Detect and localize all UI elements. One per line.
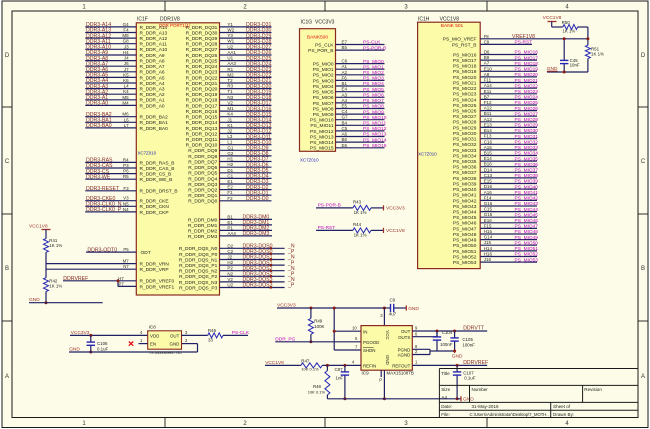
svg-text:H16: H16 <box>484 252 493 257</box>
pin A14 / net PS_MIO22 wire <box>453 83 538 92</box>
pin C4 / net PS_MIO9 wire <box>313 109 385 118</box>
svg-text:VCC: VCC <box>385 330 390 339</box>
svg-text:R_DDR_CKE: R_DDR_CKE <box>140 199 169 205</box>
pin E7 / net PS-CLK wire <box>315 40 384 49</box>
svg-text:D14: D14 <box>484 167 493 172</box>
svg-text:PS_MIO23: PS_MIO23 <box>515 89 539 95</box>
svg-text:R49: R49 <box>314 318 323 323</box>
svg-text:R_DDR_DQ26: R_DDR_DQ26 <box>186 53 218 59</box>
pin B9 / net PS_MIO17 wire <box>453 55 538 64</box>
pin A6 / net PS_MIO13 wire <box>310 132 387 141</box>
svg-text:R_DDR_A0: R_DDR_A0 <box>140 103 165 109</box>
junction R42 gnd rail <box>45 301 48 304</box>
pin E15 / net PS_MIO39 wire <box>453 179 538 188</box>
svg-text:R_DDR_A8: R_DDR_A8 <box>140 59 165 65</box>
svg-text:E7: E7 <box>342 40 348 45</box>
svg-text:VCC1V8: VCC1V8 <box>440 16 460 22</box>
pin F13 / net PS_MIO31 wire <box>453 134 538 143</box>
svg-text:N3: N3 <box>227 95 233 100</box>
junction OUTS/OUT <box>436 330 439 333</box>
pin J2 / net DDR3-DQS1_N wire <box>179 255 295 264</box>
svg-text:R_DDR_DQ0: R_DDR_DQ0 <box>188 199 217 205</box>
svg-text:PS_MIO8: PS_MIO8 <box>313 106 334 112</box>
wire R44 to VCC1V8 <box>371 229 384 231</box>
svg-text:R_DDR_DQ15: R_DDR_DQ15 <box>186 115 218 121</box>
svg-text:R_DDR_VRP: R_DDR_VRP <box>140 267 169 273</box>
resistor R41 1K 1% <box>44 238 63 252</box>
svg-text:PS_MIO12: PS_MIO12 <box>363 126 387 132</box>
svg-text:C87: C87 <box>335 367 344 372</box>
svg-text:PS_MIO26: PS_MIO26 <box>453 109 477 115</box>
svg-text:M5: M5 <box>122 95 129 100</box>
power port GND bottom right <box>457 396 474 402</box>
svg-text:PS_MIO18: PS_MIO18 <box>515 61 539 67</box>
pin 1 EN no-connect X <box>129 338 148 346</box>
svg-text:DDR3-RESET: DDR3-RESET <box>86 186 120 192</box>
pin H7 R_DDR_VREF0 / net DDRVREF wire <box>63 276 174 285</box>
svg-text:C4: C4 <box>342 109 348 114</box>
pin L4 / net DDR3-A3 wire <box>85 84 165 93</box>
pin 3 OUT wire <box>182 330 208 336</box>
svg-text:PGOOD: PGOOD <box>363 340 379 345</box>
svg-text:_P: _P <box>287 283 295 289</box>
svg-text:R_DDR_BA2: R_DDR_BA2 <box>140 115 169 121</box>
svg-text:R46: R46 <box>208 328 217 333</box>
pin D16 / net PS_MIO40 wire <box>453 184 538 193</box>
svg-text:10K 0.1%: 10K 0.1% <box>301 367 319 372</box>
power port VCC1V8 refin <box>265 360 301 366</box>
svg-text:F1: F1 <box>227 190 233 195</box>
svg-text:GND: GND <box>408 306 419 312</box>
svg-text:B: B <box>641 266 645 272</box>
svg-text:Number: Number <box>472 387 489 392</box>
pin L1 / net DDR3-D10 wire <box>186 140 272 149</box>
capacitor C106 0.1uF <box>87 335 109 352</box>
svg-text:D: D <box>641 53 646 59</box>
svg-text:B15: B15 <box>484 151 493 156</box>
svg-text:PS_POR_B: PS_POR_B <box>308 48 333 54</box>
pin D2 / net DDR3-DQS0_N wire <box>179 243 295 252</box>
net label PS-RST wire <box>316 225 353 231</box>
svg-text:R_DDR_DQ11: R_DDR_DQ11 <box>186 137 218 143</box>
net label DDRVTT <box>463 326 485 332</box>
svg-text:PS_MIO40: PS_MIO40 <box>515 184 539 190</box>
svg-text:A14: A14 <box>484 83 493 88</box>
pin K4 / net DDR3-A2 wire <box>85 89 165 98</box>
svg-text:E1: E1 <box>227 179 233 184</box>
svg-text:F4: F4 <box>123 28 129 33</box>
svg-text:P1: P1 <box>227 225 233 230</box>
pin R4 / net DDR3-RAS wire <box>85 157 174 166</box>
capacitor C104 100nF <box>433 330 453 351</box>
svg-text:P6: P6 <box>123 169 129 174</box>
pin F3 / net DDR3-RESET wire <box>85 186 177 195</box>
junction C106 gnd <box>89 351 92 354</box>
svg-text:R_DDR_DQ1: R_DDR_DQ1 <box>188 193 217 199</box>
pin 9 OUT <box>415 326 418 331</box>
junction DDRVREF node <box>117 279 120 282</box>
svg-text:31-May-2016: 31-May-2016 <box>472 404 500 409</box>
svg-text:F12: F12 <box>484 100 492 105</box>
svg-text:R_DDR_DM0: R_DDR_DM0 <box>188 217 218 223</box>
svg-text:PS_MIO41: PS_MIO41 <box>453 193 477 199</box>
svg-text:PS_MIO30: PS_MIO30 <box>515 128 539 134</box>
svg-text:T1: T1 <box>227 89 233 94</box>
svg-text:N2: N2 <box>227 271 233 276</box>
svg-text:PS_MIO28: PS_MIO28 <box>515 117 539 123</box>
svg-text:L1: L1 <box>227 140 233 145</box>
svg-text:F15: F15 <box>484 223 492 228</box>
power port VCC3V3 reg <box>277 303 386 309</box>
power port VCC3V3 osc <box>70 330 148 336</box>
svg-text:R_DDR_DQS_N1: R_DDR_DQS_N1 <box>179 257 218 263</box>
svg-text:B5: B5 <box>342 45 348 50</box>
svg-text:R_DDR_DQ4: R_DDR_DQ4 <box>188 176 217 182</box>
resistor R51 1K 1% <box>585 39 604 72</box>
svg-text:PS_MIO51: PS_MIO51 <box>515 246 539 252</box>
svg-text:R_DDR_DQ21: R_DDR_DQ21 <box>186 81 218 87</box>
wire C9 to GND <box>398 307 406 309</box>
svg-text:R_DDR_DQ14: R_DDR_DQ14 <box>186 120 218 126</box>
svg-text:PS_MIO32: PS_MIO32 <box>453 142 477 148</box>
resistor R42 1K 1% <box>44 278 63 303</box>
svg-text:PS_MIO0: PS_MIO0 <box>313 62 334 68</box>
pin C16 / net PS_MIO32 wire <box>453 139 538 148</box>
svg-text:A12: A12 <box>484 106 493 111</box>
svg-text:DDR3-BA0: DDR3-BA0 <box>86 123 112 129</box>
svg-text:PS_MIO14: PS_MIO14 <box>363 137 387 143</box>
svg-text:PS_MIO45: PS_MIO45 <box>515 212 539 218</box>
power port VCC1V8 mid <box>384 228 405 234</box>
svg-text:R_DDR_DQ6: R_DDR_DQ6 <box>188 165 217 171</box>
svg-text:PS_MIO30: PS_MIO30 <box>453 131 477 137</box>
pin A2 / net PS_MIO2 wire <box>313 70 385 79</box>
svg-text:1K 1%: 1K 1% <box>591 52 604 57</box>
svg-text:N4: N4 <box>123 207 129 212</box>
pin H4 / net DDR3-A9 wire <box>85 50 165 59</box>
svg-text:Y3: Y3 <box>227 33 233 38</box>
pin B1 / net PS_MIO4 wire <box>313 81 385 90</box>
capacitor C45 10nF <box>560 39 580 72</box>
svg-text:PS-RST: PS-RST <box>515 40 533 46</box>
net label PS-CLK <box>232 330 250 336</box>
svg-text:A15: A15 <box>484 145 493 150</box>
svg-text:MAX15108TB: MAX15108TB <box>387 371 414 376</box>
svg-text:IN: IN <box>363 329 367 334</box>
svg-text:PS_MIO37: PS_MIO37 <box>453 170 477 176</box>
capacitor C105 100nF <box>450 331 475 351</box>
svg-text:L4: L4 <box>124 84 130 89</box>
svg-text:R_DDR_DQ27: R_DDR_DQ27 <box>186 47 218 53</box>
svg-text:R_DDR_DQ13: R_DDR_DQ13 <box>186 126 218 132</box>
wire R46 to PS-CLK <box>223 334 248 336</box>
svg-text:PS_MIO22: PS_MIO22 <box>515 83 539 89</box>
pin A15 / net PS_MIO33 wire <box>453 145 538 154</box>
svg-text:E1: E1 <box>227 220 233 225</box>
pin T2 / net DDR3-D21 wire <box>186 78 272 87</box>
svg-text:R_DDR_DQ29: R_DDR_DQ29 <box>186 36 218 42</box>
svg-text:E16: E16 <box>484 218 493 223</box>
pin B16 / net PS_MIO36 wire <box>453 162 538 171</box>
svg-text:J16: J16 <box>484 257 492 262</box>
svg-text:SHDN: SHDN <box>363 348 375 353</box>
svg-text:J7: J7 <box>124 67 129 72</box>
svg-text:R_DDR_DRST_B: R_DDR_DRST_B <box>140 189 178 195</box>
svg-text:PS_MIO9: PS_MIO9 <box>363 109 384 115</box>
wire GND pad to rail <box>383 370 385 399</box>
pin U1 / net DDR3-D25 wire <box>186 56 272 65</box>
svg-text:PS_MIO31: PS_MIO31 <box>453 137 477 143</box>
svg-text:PS_MIO51: PS_MIO51 <box>453 249 477 255</box>
wire VCC1V8 to R50 <box>552 26 563 28</box>
svg-text:B11: B11 <box>484 111 492 116</box>
svg-text:PS_MIO9: PS_MIO9 <box>313 112 334 118</box>
pin 4 REFIN <box>352 360 355 365</box>
pin F2 / net DDR3-D0 wire <box>188 196 271 205</box>
power port GND left divider <box>29 297 103 303</box>
svg-text:PS_MIO10: PS_MIO10 <box>363 115 387 121</box>
svg-text:BANK 501: BANK 501 <box>441 23 464 29</box>
svg-text:E11: E11 <box>484 89 492 94</box>
pin 6 OUTS <box>415 331 418 336</box>
svg-text:A4: A4 <box>342 98 348 103</box>
svg-text:B1: B1 <box>227 214 233 219</box>
svg-text:H2: H2 <box>227 260 233 265</box>
svg-text:ODT: ODT <box>141 250 151 256</box>
svg-text:R_DDR_A13: R_DDR_A13 <box>140 30 168 36</box>
svg-text:B9: B9 <box>484 55 490 60</box>
svg-text:G16: G16 <box>484 201 493 206</box>
svg-text:F14: F14 <box>484 195 492 200</box>
svg-text:PS-CLK: PS-CLK <box>363 40 381 46</box>
pin J1 / net DDR3-D14 wire <box>186 117 272 126</box>
svg-text:C16: C16 <box>484 139 493 144</box>
svg-text:F13: F13 <box>484 134 492 139</box>
pin V2 / net DDR3-D17 wire <box>186 100 272 109</box>
svg-text:A2: A2 <box>342 70 348 75</box>
svg-text:N5: N5 <box>123 201 129 206</box>
svg-text:GND: GND <box>385 355 390 365</box>
pin 5 PGOOD <box>355 336 358 341</box>
pin R5 / net DDR3-WE wire <box>85 174 172 183</box>
svg-text:M4: M4 <box>122 100 129 105</box>
svg-text:R4: R4 <box>123 157 129 162</box>
pin N4 / net DDR3-CLK0_P wire <box>85 207 168 216</box>
pin F14 / net PS_MIO42 wire <box>453 195 538 204</box>
svg-text:E6: E6 <box>342 143 348 148</box>
svg-text:PS_MIO0: PS_MIO0 <box>363 59 384 65</box>
svg-text:F3: F3 <box>123 186 129 191</box>
svg-text:R_DDR_DQS_P3: R_DDR_DQS_P3 <box>179 285 217 291</box>
svg-text:L3: L3 <box>227 134 233 139</box>
svg-text:PS_MIO25: PS_MIO25 <box>453 103 477 109</box>
pin B6 / net PS_MIO14 wire <box>310 137 387 146</box>
svg-text:R_DDR_A2: R_DDR_A2 <box>140 92 165 98</box>
power port GND top right <box>547 66 558 72</box>
svg-text:PS_MIO20: PS_MIO20 <box>515 72 539 78</box>
svg-text:F6: F6 <box>342 75 348 80</box>
junction C105 tap <box>453 330 456 333</box>
svg-text:M6: M6 <box>122 112 129 117</box>
svg-text:D6: D6 <box>484 50 490 55</box>
IC U1 IC1G XC7Z010 BANK500 body <box>300 19 336 162</box>
pin A3 / net PS_MIO6 wire <box>313 92 385 101</box>
pin B15 / net PS_MIO34 wire <box>453 151 538 160</box>
pin C6 / net PS_MIO0 wire <box>313 59 385 68</box>
svg-text:PS_MIO45: PS_MIO45 <box>453 215 477 221</box>
svg-text:C15: C15 <box>484 207 493 212</box>
svg-text:PS_MIO4: PS_MIO4 <box>313 84 334 90</box>
svg-text:D1: D1 <box>227 168 233 173</box>
wire gnd rail top right <box>547 71 588 73</box>
svg-text:PS_MIO25: PS_MIO25 <box>515 100 539 106</box>
wire R43 to VCC3V3 <box>371 207 384 209</box>
net label PS-POR-B wire <box>316 203 353 209</box>
svg-text:VREF1V8: VREF1V8 <box>512 34 535 40</box>
svg-text:PS_MIO27: PS_MIO27 <box>453 114 477 120</box>
svg-text:PS_MIO27: PS_MIO27 <box>515 111 539 117</box>
svg-text:DDRVTT: DDRVTT <box>463 326 485 332</box>
svg-text:A13: A13 <box>484 117 493 122</box>
svg-text:R_DDR_A4: R_DDR_A4 <box>140 81 165 87</box>
svg-text:W2: W2 <box>227 28 234 33</box>
svg-text:R_DDR_A3: R_DDR_A3 <box>140 87 165 93</box>
pin F15 / net PS_MIO47 wire <box>453 223 538 232</box>
svg-text:100nF: 100nF <box>462 342 475 347</box>
svg-text:G1: G1 <box>227 145 234 150</box>
power port VCC3V3 mid <box>384 205 405 211</box>
svg-text:E15: E15 <box>484 179 493 184</box>
svg-text:C13: C13 <box>484 173 493 178</box>
svg-text:100nF: 100nF <box>440 342 453 347</box>
svg-text:B1: B1 <box>342 81 348 86</box>
svg-text:R_DDR_DQ31: R_DDR_DQ31 <box>186 25 218 31</box>
svg-text:1K 1%: 1K 1% <box>49 243 62 248</box>
svg-text:10: 10 <box>352 326 357 331</box>
junction VCC3V3 / C106 <box>89 334 92 337</box>
pin G16 / net PS_MIO43 wire <box>453 201 538 210</box>
svg-text:V2: V2 <box>227 277 233 282</box>
resistor R48 10K 0.1% <box>308 365 330 398</box>
pin R3 / net DDR3-D20 wire <box>186 84 272 93</box>
svg-text:7X-33333MHZ-T1C: 7X-33333MHZ-T1C <box>149 351 182 355</box>
svg-text:R_DDR_VREF1: R_DDR_VREF1 <box>140 284 175 290</box>
power port GND osc <box>69 347 198 353</box>
svg-text:DDR1V8: DDR1V8 <box>160 17 180 23</box>
svg-text:PS_MIO18: PS_MIO18 <box>453 64 477 70</box>
svg-text:PS_MIO11: PS_MIO11 <box>310 123 333 129</box>
svg-text:PS_MIO7: PS_MIO7 <box>363 98 384 104</box>
svg-text:L6: L6 <box>124 117 130 122</box>
svg-text:10nF: 10nF <box>570 63 580 68</box>
svg-text:D2: D2 <box>227 243 233 248</box>
wire R47 to REFIN <box>322 364 361 366</box>
wire VCC3V3 branch to IN and SHDN <box>334 308 361 350</box>
svg-text:PS_MIO50: PS_MIO50 <box>515 240 539 246</box>
svg-text:P: P <box>379 378 382 383</box>
junction R48 top <box>326 364 329 367</box>
svg-text:33: 33 <box>208 337 213 342</box>
svg-text:R_DDR_VREF0: R_DDR_VREF0 <box>140 279 175 285</box>
pin D1 / net DDR3-D5 wire <box>188 168 271 177</box>
svg-text:R_DDR_DQ19: R_DDR_DQ19 <box>186 92 218 98</box>
svg-text:4u7: 4u7 <box>389 312 397 317</box>
svg-text:PS_MIO49: PS_MIO49 <box>515 235 539 241</box>
svg-text:R_DDR_VRN: R_DDR_VRN <box>140 262 170 268</box>
svg-text:R_DDR_WE_B: R_DDR_WE_B <box>140 177 173 183</box>
resistor R44 1K 1% <box>353 222 371 237</box>
svg-text:H1: H1 <box>227 157 233 162</box>
svg-text:PS_MIO19: PS_MIO19 <box>453 69 477 75</box>
svg-text:PS_MIO21: PS_MIO21 <box>515 78 539 84</box>
svg-text:R_DDR_A5: R_DDR_A5 <box>140 75 165 81</box>
svg-text:DDR3-DQS3: DDR3-DQS3 <box>243 283 273 289</box>
svg-text:R_DDR_DM3: R_DDR_DM3 <box>188 234 218 240</box>
svg-text:PS_MIO29: PS_MIO29 <box>453 125 477 131</box>
pin 3 VCC <box>380 313 383 318</box>
pin U2 / net DDR3-DQS3_P wire <box>179 283 295 292</box>
pin D14 / net PS_MIO37 wire <box>453 167 538 176</box>
svg-text:PS_MIO15: PS_MIO15 <box>310 146 334 152</box>
svg-text:PS_MIO52: PS_MIO52 <box>453 254 477 260</box>
wire caps gnd <box>437 350 455 352</box>
svg-text:10K 0.1%: 10K 0.1% <box>308 390 326 395</box>
svg-text:V2: V2 <box>227 100 233 105</box>
pin F11 / net PS_MIO21 wire <box>453 78 538 87</box>
pin M1 / net DDR3-D16 wire <box>186 106 272 115</box>
svg-text:PS_MIO1: PS_MIO1 <box>313 67 334 73</box>
pin 11 P pad <box>379 370 382 382</box>
pin L7 / net DDR3-BA0 wire <box>85 123 168 132</box>
svg-text:B7: B7 <box>484 94 490 99</box>
svg-text:R_DDR_DQ7: R_DDR_DQ7 <box>188 159 217 165</box>
svg-text:R_DDR_DQS_N3: R_DDR_DQS_N3 <box>179 280 218 286</box>
power port VCC1V8 left divider <box>29 223 51 238</box>
svg-text:R_DDR_A11: R_DDR_A11 <box>140 42 168 48</box>
wire VCC pin3 vertical <box>383 308 385 326</box>
svg-text:VCC3V3: VCC3V3 <box>386 206 405 212</box>
svg-text:B: B <box>5 266 9 272</box>
svg-text:AA1: AA1 <box>227 50 236 55</box>
svg-text:PS_MIO13: PS_MIO13 <box>310 134 334 140</box>
svg-text:VCC3V3: VCC3V3 <box>315 19 335 25</box>
svg-text:VCC1V8: VCC1V8 <box>386 228 405 234</box>
svg-text:PS_MIO5: PS_MIO5 <box>363 87 384 93</box>
pin G8 / net DDR3-A11 wire <box>85 39 167 48</box>
pin V2 / net DDR3-DQS3_N wire <box>179 277 295 286</box>
svg-text:R_DDR_DQ25: R_DDR_DQ25 <box>186 59 218 65</box>
svg-text:PS_MIO32: PS_MIO32 <box>515 140 539 146</box>
pin B11 / net PS_MIO27 wire <box>453 111 538 120</box>
svg-text:PS_MIO37: PS_MIO37 <box>515 168 539 174</box>
svg-text:1K 1%: 1K 1% <box>49 284 62 289</box>
svg-text:C2: C2 <box>227 249 233 254</box>
junction C9 / VCC pin3 <box>383 307 386 310</box>
svg-text:C6: C6 <box>342 59 348 64</box>
svg-text:U2: U2 <box>227 283 233 288</box>
svg-text:R_DDR_DQS_P2: R_DDR_DQS_P2 <box>179 274 217 280</box>
pin H2 / net DDR3-DQS1_P wire <box>179 260 295 269</box>
svg-text:D16: D16 <box>484 184 493 189</box>
svg-text:R_DDR_CS_B: R_DDR_CS_B <box>140 172 172 178</box>
pin J3 / net DDR3-A10 wire <box>85 44 167 53</box>
pin A8 / net PS_MIO20 wire <box>453 72 538 81</box>
svg-text:PS_MIO34: PS_MIO34 <box>515 151 539 157</box>
svg-text:1K 1%: 1K 1% <box>562 29 575 34</box>
pin M4 / net DDR3-A0 wire <box>85 100 165 109</box>
svg-text:M8: M8 <box>122 33 129 38</box>
pin G14 / net PS_MIO49 wire <box>453 235 538 244</box>
